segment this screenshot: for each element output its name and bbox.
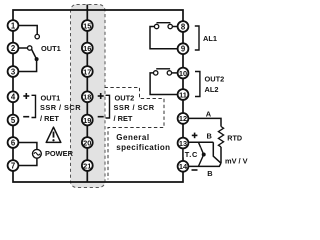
svg-text:21: 21 <box>83 161 91 170</box>
terminal 5 <box>8 115 19 126</box>
svg-text:3: 3 <box>11 67 16 76</box>
bracket OUT2/AL2 <box>195 72 200 97</box>
plus sign terminal 4 <box>23 93 29 99</box>
terminal 12 <box>178 113 189 124</box>
wire top rail from terminal 1 to terminal 8 <box>13 10 183 21</box>
plus sign terminal 18 <box>98 93 104 99</box>
resistor RTD zigzag <box>218 127 223 147</box>
svg-text:B: B <box>207 132 212 141</box>
svg-text:specification: specification <box>116 143 170 152</box>
svg-text:AL2: AL2 <box>205 85 219 94</box>
svg-text:16: 16 <box>83 44 91 53</box>
svg-text:2: 2 <box>11 44 16 53</box>
wire bottom rail from terminal 7 to terminal 14 <box>13 171 183 182</box>
svg-text:T.C: T.C <box>185 150 198 159</box>
terminal 10 <box>178 68 189 79</box>
svg-text:OUT1: OUT1 <box>41 93 61 102</box>
wire tap to mV/V node <box>213 142 221 163</box>
wire input B top from terminal 13 <box>189 141 213 143</box>
terminal 2 <box>8 43 19 54</box>
svg-text:4: 4 <box>11 93 16 102</box>
svg-text:12: 12 <box>179 114 187 123</box>
terminal 21 <box>82 160 93 171</box>
relay AL1 contact <box>157 22 171 24</box>
wire OUT2/AL2 to terminals 10 and 11 <box>172 72 178 74</box>
terminal 1 <box>8 20 19 31</box>
wire RTD bottom <box>220 147 222 163</box>
terminal 4 <box>8 91 19 102</box>
svg-text:7: 7 <box>11 161 15 170</box>
terminal 20 <box>82 137 93 148</box>
minus sign terminal 19 <box>98 116 104 118</box>
terminal 19 <box>82 115 93 126</box>
svg-text:11: 11 <box>179 90 187 99</box>
terminal 18 <box>82 91 93 102</box>
terminal 16 <box>82 43 93 54</box>
svg-text:OUT1: OUT1 <box>41 44 61 53</box>
relay OUT2/AL2 contact <box>156 68 170 70</box>
relay OUT1 closed contact dot <box>35 57 39 61</box>
svg-text:1: 1 <box>11 21 16 30</box>
warning triangle <box>46 127 61 142</box>
svg-text:B: B <box>207 169 212 178</box>
shaded option box (terminals 15-21) <box>71 5 106 188</box>
terminal 3 <box>8 66 19 77</box>
svg-text:5: 5 <box>11 116 16 125</box>
svg-text:17: 17 <box>83 67 91 76</box>
minus sign terminal 5 <box>23 116 29 118</box>
bracket OUT2 SSR <box>106 95 110 118</box>
wire input B bottom from terminal 14 <box>189 163 221 166</box>
relay OUT1 pivot contact <box>28 46 32 50</box>
AC source symbol <box>33 149 42 158</box>
svg-text:20: 20 <box>83 138 91 147</box>
text layer (grayscale AA) <box>11 21 248 178</box>
bracket OUT1 SSR <box>32 95 36 117</box>
terminal 11 <box>178 89 189 100</box>
power source wiring <box>19 143 37 150</box>
bracket AL1 <box>195 26 199 50</box>
wire left column bus <box>12 20 14 171</box>
terminal 7 <box>8 160 19 171</box>
terminal 6 <box>8 137 19 148</box>
relay OUT1 contact wiring <box>19 26 37 72</box>
terminal 14 <box>178 161 189 172</box>
svg-text:13: 13 <box>179 139 187 148</box>
svg-text:RTD: RTD <box>227 134 242 143</box>
svg-text:OUT2: OUT2 <box>115 93 135 102</box>
svg-text:9: 9 <box>181 45 186 54</box>
svg-text:/ RET: / RET <box>40 114 59 123</box>
svg-text:19: 19 <box>83 116 91 125</box>
svg-text:A: A <box>206 110 212 119</box>
svg-text:15: 15 <box>83 21 91 30</box>
svg-text:6: 6 <box>11 138 16 147</box>
terminal 13 <box>178 138 189 149</box>
terminal 17 <box>82 66 93 77</box>
relay OUT1 NO contact <box>35 34 39 38</box>
wire right column bus <box>182 20 184 172</box>
svg-text:/ RET: / RET <box>114 114 133 123</box>
thermocouple symbol <box>198 142 203 166</box>
wire AL1 to terminals 8 and 9 <box>173 26 178 28</box>
svg-text:SSR / SCR: SSR / SCR <box>114 103 155 112</box>
terminal 9 <box>178 43 189 54</box>
minus sign terminal 14 <box>192 169 198 171</box>
terminal 15 <box>82 20 93 31</box>
svg-text:General: General <box>116 133 149 142</box>
junction dot T.C <box>202 153 206 157</box>
svg-text:mV / V: mV / V <box>225 157 248 166</box>
svg-text:10: 10 <box>179 69 187 78</box>
svg-text:18: 18 <box>83 93 91 102</box>
svg-text:14: 14 <box>179 162 188 171</box>
svg-text:SSR / SCR: SSR / SCR <box>40 103 81 112</box>
plus sign terminal 13 <box>192 133 198 139</box>
wire input A from terminal 12 <box>189 118 221 126</box>
terminal 8 <box>178 21 189 32</box>
wire middle column bus <box>86 5 88 183</box>
svg-text:OUT2: OUT2 <box>205 75 225 84</box>
svg-text:POWER: POWER <box>45 149 74 158</box>
dashed callout outline <box>105 88 165 180</box>
svg-text:AL1: AL1 <box>203 34 217 43</box>
svg-text:8: 8 <box>181 22 186 31</box>
